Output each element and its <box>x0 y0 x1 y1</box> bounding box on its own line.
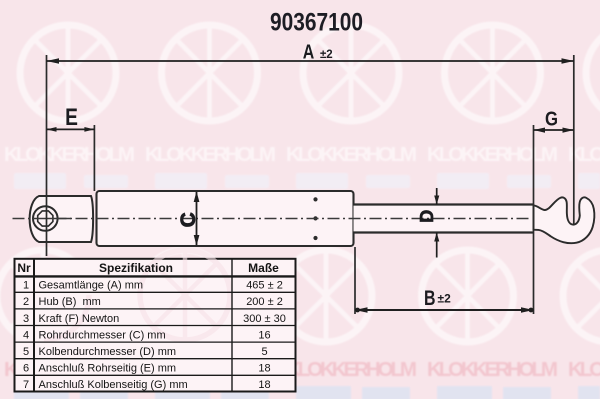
svg-text:2: 2 <box>23 296 29 308</box>
watermark logo circles row 1 <box>20 25 600 121</box>
dimension D line with arrows (rod diameter) <box>434 188 439 258</box>
tube (cylinder body) <box>97 191 354 246</box>
svg-text:Gesamtlänge (A) mm: Gesamtlänge (A) mm <box>39 280 144 292</box>
svg-text:Maße: Maße <box>248 261 279 275</box>
svg-text:E: E <box>65 104 78 131</box>
svg-text:7: 7 <box>23 379 29 391</box>
centerline (dash-dot axis) <box>13 218 532 220</box>
watermark blue strip row 2 <box>14 386 600 399</box>
dimension E extension line right (tube start) <box>93 125 95 191</box>
svg-text:C: C <box>177 212 200 227</box>
eyelet crosshair <box>33 218 71 220</box>
table row 5 <box>23 346 268 358</box>
svg-text:16: 16 <box>258 329 270 341</box>
dimension E line <box>47 127 95 132</box>
svg-text:±2: ±2 <box>438 292 452 306</box>
svg-text:KLOKKERHOLM: KLOKKERHOLM <box>286 143 417 166</box>
svg-text:Hub (B) mm: Hub (B) mm <box>39 296 101 308</box>
svg-text:D: D <box>417 210 437 223</box>
svg-text:KLOKKERHOLM: KLOKKERHOLM <box>568 143 600 166</box>
svg-text:5: 5 <box>23 346 29 358</box>
dimension A / G extension line right <box>573 55 575 225</box>
svg-text:KLOKKERHOLM: KLOKKERHOLM <box>286 358 417 381</box>
eyelet outer ring <box>33 206 58 231</box>
hook end fitting (right mount) <box>534 197 595 243</box>
svg-text:G: G <box>545 107 558 130</box>
piston rod <box>354 205 534 233</box>
svg-text:Kolbendurchmesser (D) mm: Kolbendurchmesser (D) mm <box>39 346 177 358</box>
svg-text:18: 18 <box>258 363 270 375</box>
dimension A line <box>47 58 575 63</box>
watermark text row 1 white KLOKKERHOLM <box>4 143 600 166</box>
svg-text:300 ± 30: 300 ± 30 <box>243 313 286 325</box>
svg-text:18: 18 <box>258 379 270 391</box>
dimension B extension line left (tube end) <box>354 247 356 314</box>
table row 1 <box>23 280 283 292</box>
svg-text:B: B <box>424 286 436 310</box>
tube orifice dots <box>313 197 317 240</box>
watermark text row 2 pink KLOKKERHOLM <box>4 358 600 381</box>
svg-text:200 ± 2: 200 ± 2 <box>246 296 283 308</box>
svg-text:KLOKKERHOLM: KLOKKERHOLM <box>568 358 600 381</box>
table header text <box>17 261 279 275</box>
svg-text:4: 4 <box>23 329 29 341</box>
svg-text:Spezifikation: Spezifikation <box>99 261 173 275</box>
table row 7 <box>23 379 271 391</box>
svg-text:KLOKKERHOLM: KLOKKERHOLM <box>4 143 135 166</box>
watermark logo circles row 2 <box>0 250 600 342</box>
dimension G line <box>534 128 575 133</box>
table row 6 <box>23 363 271 375</box>
dimension G extension line left <box>533 125 535 314</box>
svg-text:Rohrdurchmesser (C) mm: Rohrdurchmesser (C) mm <box>39 329 166 341</box>
eyelet housing (left mount) <box>30 196 93 242</box>
svg-text:5: 5 <box>261 346 267 358</box>
svg-text:6: 6 <box>23 363 29 375</box>
table row 4 <box>23 329 271 341</box>
dimension B line <box>355 307 534 312</box>
label B ±2 <box>424 286 451 310</box>
dimension C line with arrows (tube diameter) <box>194 191 200 245</box>
svg-text:Nr: Nr <box>17 261 31 275</box>
table row 3 <box>23 313 286 325</box>
table inner lines <box>15 275 296 277</box>
svg-text:Anschluß Kolbenseitig (G) mm: Anschluß Kolbenseitig (G) mm <box>39 379 188 391</box>
svg-text:±2: ±2 <box>320 49 333 61</box>
faint watermark arc over table <box>44 250 230 340</box>
eyelet inner bore (octagonal) <box>38 211 53 226</box>
part number 90367100 <box>270 9 363 37</box>
svg-text:1: 1 <box>23 280 29 292</box>
svg-text:KLOKKERHOLM: KLOKKERHOLM <box>427 358 558 381</box>
svg-text:3: 3 <box>23 313 29 325</box>
watermark faint blue strip row 1 <box>14 173 600 189</box>
svg-text:Kraft (F) Newton: Kraft (F) Newton <box>39 313 120 325</box>
svg-text:KLOKKERHOLM: KLOKKERHOLM <box>427 143 558 166</box>
svg-text:465 ± 2: 465 ± 2 <box>246 280 283 292</box>
svg-text:A: A <box>303 41 315 64</box>
dimension A extension line left <box>46 55 48 256</box>
svg-text:Anschluß Rohrseitig (E) mm: Anschluß Rohrseitig (E) mm <box>39 363 177 375</box>
table row 2 <box>23 296 283 308</box>
svg-text:90367100: 90367100 <box>270 9 363 37</box>
svg-text:KLOKKERHOLM: KLOKKERHOLM <box>145 143 276 166</box>
label A ±2 <box>303 41 333 64</box>
spec table <box>15 250 296 392</box>
